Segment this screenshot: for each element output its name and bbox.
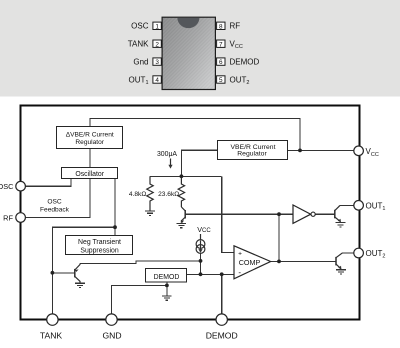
pin 4 box (153, 76, 161, 83)
pin 6 box (217, 58, 225, 65)
svg-text:RF: RF (3, 214, 13, 223)
pin 8 box (217, 22, 225, 29)
node inverter input (277, 212, 281, 216)
wire junction to COMP plus input (222, 176, 234, 252)
node current source top (199, 259, 203, 263)
svg-text:Neg Transient: Neg Transient (78, 239, 121, 246)
node at VBE/R-VCC (298, 149, 302, 153)
wire inverter junction vertical (278, 214, 280, 261)
wire COMP output to Q4 base (271, 260, 336, 262)
transistor Q3 (OUT1) (335, 205, 341, 221)
wire dVBE/R to oscillator (89, 149, 91, 168)
node gnd bus (165, 284, 169, 288)
node resistor junction (180, 174, 184, 178)
wire inverter output to Q3 base (315, 213, 335, 215)
svg-text:8: 8 (219, 23, 223, 30)
resistor R2 23.6k (178, 176, 184, 207)
svg-text:7: 7 (219, 41, 223, 48)
gray band (0, 0, 400, 97)
pin 7 box (217, 40, 225, 47)
pin circle OSC (16, 181, 26, 191)
wire Q2 base to inverter input (186, 213, 294, 215)
svg-text:4: 4 (155, 77, 159, 84)
svg-text:4.8kΩ: 4.8kΩ (129, 191, 146, 198)
wire Q1 emitter to current mirror node (80, 261, 201, 264)
svg-text:OSC: OSC (0, 182, 14, 191)
svg-text:DEMOD: DEMOD (154, 274, 180, 281)
inverter U7 (293, 205, 311, 223)
pin 3 box (153, 58, 161, 65)
IC package body U1 (162, 17, 215, 89)
ground under Q4 (336, 270, 346, 274)
300uA arrow (170, 159, 172, 166)
pin circle DEMOD (216, 314, 227, 325)
svg-text:2: 2 (155, 41, 159, 48)
svg-text:COMP: COMP (239, 258, 261, 267)
wire Q4 collector to OUT2 (342, 252, 354, 254)
ground under Q1 (75, 283, 85, 287)
neg transient suppression box U5 (66, 236, 133, 255)
ground under R1 (145, 211, 155, 215)
demod box U6 (146, 269, 187, 283)
svg-text:Regulator: Regulator (237, 151, 267, 158)
ground under Q2 (177, 223, 187, 227)
svg-text:Oscillator: Oscillator (75, 171, 104, 178)
wire DEMOD box to COMP minus (187, 273, 234, 275)
wire DEMOD box bottom to gnd node (166, 282, 168, 295)
node current source bottom (199, 272, 203, 276)
wire resistor node to VBE/R (181, 150, 218, 176)
notch (177, 18, 199, 28)
svg-text:23.6kΩ: 23.6kΩ (158, 191, 179, 198)
current source I1 (196, 234, 205, 253)
pin 1 box (153, 22, 161, 29)
wire TANK riser (52, 227, 115, 314)
oscillator box U3 (62, 168, 118, 179)
wire DEMOD pin riser (221, 274, 223, 314)
svg-text:ΔVBE/R Current: ΔVBE/R Current (66, 132, 114, 139)
wire oscillator to neg transient box (114, 179, 116, 236)
transistor Q1 (PNP at TANK) (75, 263, 80, 282)
svg-text:OSC: OSC (131, 22, 149, 31)
node DEMOD riser (220, 272, 224, 276)
svg-text:TANK: TANK (40, 331, 63, 341)
wire resistor junction row (150, 175, 222, 177)
svg-text:5: 5 (219, 77, 223, 84)
comparator COMP (234, 246, 271, 279)
svg-text:Suppression: Suppression (80, 247, 118, 254)
svg-text:OSC: OSC (47, 199, 62, 206)
pin circle VCC (354, 146, 364, 156)
wire GND riser (112, 285, 167, 313)
wire oscillator to RF pin (25, 179, 90, 218)
pin 2 box (153, 40, 161, 47)
wire VBE/R to VCC pin (288, 149, 354, 151)
svg-text:DEMOD: DEMOD (230, 57, 260, 66)
pin circle GND (106, 314, 117, 325)
svg-text:RF: RF (230, 22, 241, 31)
wire current source down (200, 253, 202, 274)
node TANK riser / Q1 base (51, 271, 55, 275)
wire oscillator to OSC pin (25, 179, 71, 186)
ground under Q3 (336, 223, 346, 227)
pin circle OUT2 (354, 248, 364, 258)
svg-text:6: 6 (219, 59, 223, 66)
svg-text:1: 1 (155, 23, 159, 30)
regulator box dVBE/R U2 (57, 127, 123, 149)
svg-text:-: - (238, 268, 241, 277)
svg-text:300μA: 300μA (157, 151, 177, 158)
pin circle OUT1 (354, 201, 364, 211)
transistor Q2 (181, 207, 185, 223)
svg-text:GND: GND (102, 331, 121, 341)
svg-text:3: 3 (155, 59, 159, 66)
svg-text:Feedback: Feedback (40, 206, 70, 213)
pin circle TANK (47, 314, 58, 325)
pin circle RF (16, 213, 26, 223)
svg-text:TANK: TANK (128, 40, 149, 49)
svg-text:Gnd: Gnd (133, 57, 148, 66)
node COMP output (277, 260, 281, 264)
resistor R1 4.8k (147, 176, 153, 210)
svg-text:Regulator: Regulator (75, 139, 104, 146)
svg-text:DEMOD: DEMOD (206, 331, 238, 341)
transistor Q4 (OUT2) (336, 253, 342, 269)
block diagram outer box (21, 106, 360, 320)
node TANK line / osc riser (113, 225, 117, 229)
ground under DEMOD box (162, 296, 172, 300)
wire dVBE/R top to VBE/R node (90, 119, 300, 151)
wire Q3 collector to OUT1 (340, 204, 354, 206)
wire TANK to Q1 base (52, 272, 74, 274)
regulator box VBE/R U4 (218, 141, 288, 160)
svg-text:+: + (238, 250, 242, 257)
pin 5 box (217, 76, 225, 83)
